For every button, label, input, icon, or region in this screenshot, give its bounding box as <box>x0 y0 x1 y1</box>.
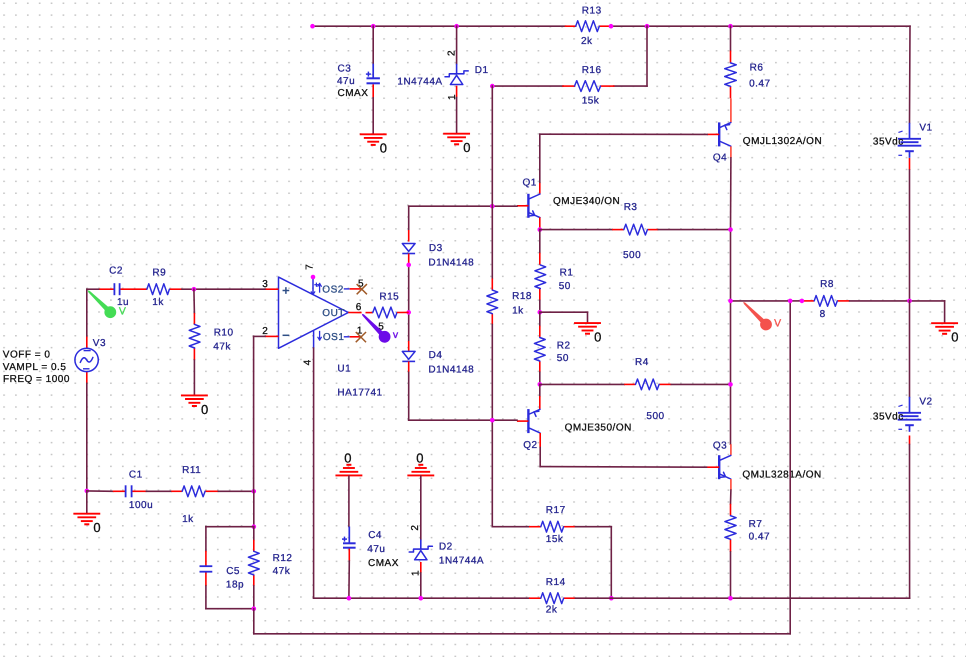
pin 1 OS1 stub <box>344 326 363 337</box>
junction R12/C5 top <box>252 524 257 529</box>
junction Q1 base / center column <box>490 204 495 209</box>
junction top rail / C3 <box>371 24 376 29</box>
svg-text:1k: 1k <box>512 306 524 317</box>
wire C4 branch <box>348 476 350 598</box>
svg-text:1k: 1k <box>152 297 164 308</box>
svg-text:QMJE350/ON: QMJE350/ON <box>565 423 632 434</box>
junction R2 / Q2 emitter / R4 <box>538 382 543 387</box>
svg-text:D4: D4 <box>429 350 443 361</box>
svg-text:2: 2 <box>446 50 457 56</box>
junction input row / R10 <box>192 287 197 292</box>
op-amp OS2 label <box>318 284 344 296</box>
svg-text:OUT: OUT <box>322 308 345 319</box>
wire V1 column <box>909 26 912 301</box>
ground 0 at R1/R2 node <box>575 323 602 344</box>
no-connect X pin5 <box>357 285 366 294</box>
svg-text:R8: R8 <box>820 279 834 290</box>
svg-text:35Vdc: 35Vdc <box>873 137 904 148</box>
svg-text:47k: 47k <box>213 342 231 353</box>
svg-text:1N4744A: 1N4744A <box>439 555 484 566</box>
wire Q1 collector row <box>540 134 707 194</box>
svg-text:v: v <box>393 329 399 341</box>
junction R8 left <box>800 299 805 304</box>
junction R7 / R14 row <box>728 596 733 601</box>
svg-text:0.47: 0.47 <box>749 531 770 542</box>
svg-text:R3: R3 <box>624 202 638 213</box>
junction output node <box>728 299 733 304</box>
svg-text:QMJL3281A/ON: QMJL3281A/ON <box>742 470 821 481</box>
capacitor C5 <box>200 566 245 591</box>
wire Q2 collector to Q3 base <box>540 433 706 467</box>
junction R3 / output column <box>728 227 733 232</box>
junction D3 cathode <box>406 263 411 268</box>
ground 0 under D1 <box>444 134 471 155</box>
resistor R14 <box>541 577 566 616</box>
svg-text:D1N4148: D1N4148 <box>428 257 474 268</box>
op-amp U1 HA17741 <box>279 277 383 398</box>
svg-text:47u: 47u <box>337 76 355 87</box>
junction feedback node <box>252 489 257 494</box>
op-amp plus input mark <box>283 288 288 293</box>
resistor R10 <box>189 324 233 352</box>
svg-text:OS1: OS1 <box>323 332 345 343</box>
svg-text:0: 0 <box>594 330 602 345</box>
svg-text:0: 0 <box>463 140 471 155</box>
resistor R7 <box>725 516 770 543</box>
svg-text:8: 8 <box>820 309 826 320</box>
svg-text:C2: C2 <box>109 265 123 276</box>
dc source V1 35Vdc <box>873 123 933 158</box>
svg-text:7: 7 <box>305 264 316 270</box>
junction R1/R2/ground <box>538 310 543 315</box>
svg-text:R16: R16 <box>582 65 602 76</box>
svg-text:V3: V3 <box>93 338 106 349</box>
svg-text:QMJL1302A/ON: QMJL1302A/ON <box>743 136 822 147</box>
junction top rail / D1 <box>454 24 459 29</box>
svg-text:2k: 2k <box>581 36 593 47</box>
pin 3 stub <box>262 279 278 290</box>
no-connect X pin1 <box>356 333 365 342</box>
wire R15 to diode column <box>397 311 409 313</box>
svg-text:50: 50 <box>557 353 569 364</box>
resistor R16 <box>575 65 602 107</box>
svg-text:15k: 15k <box>546 534 564 545</box>
capacitor C3 <box>337 64 380 100</box>
junction R16 / center column <box>490 84 495 89</box>
svg-text:0: 0 <box>416 451 424 466</box>
pin 4 lead <box>303 331 314 366</box>
svg-text:R11: R11 <box>182 465 201 476</box>
svg-text:Q3: Q3 <box>713 441 727 452</box>
junction R15 / diode column <box>406 310 411 315</box>
resistor R13 <box>576 6 602 48</box>
svg-text:R6: R6 <box>750 63 764 74</box>
junction Q1 emitter node <box>538 227 543 232</box>
svg-text:1k: 1k <box>182 514 194 525</box>
svg-text:1: 1 <box>411 570 422 576</box>
svg-text:C1: C1 <box>129 470 143 481</box>
wire D2 branch <box>420 476 422 598</box>
resistor R4 <box>635 357 665 422</box>
resistor R3 <box>623 202 647 261</box>
wire R12 C5 branch <box>253 491 255 526</box>
svg-text:R10: R10 <box>214 328 234 339</box>
svg-text:1: 1 <box>447 94 458 100</box>
svg-text:QMJE340/ON: QMJE340/ON <box>553 196 620 207</box>
svg-text:2: 2 <box>262 326 268 337</box>
wire C3 branch <box>372 26 374 133</box>
junction R17 / R14 row <box>609 596 614 601</box>
junction C5/R12 bottom <box>252 606 257 611</box>
resistor R15 <box>373 292 399 333</box>
pin 2 stub <box>262 326 278 337</box>
svg-text:C4: C4 <box>368 530 382 541</box>
wire Q3 emitter to R7 <box>730 479 732 598</box>
svg-text:4: 4 <box>303 359 314 365</box>
svg-text:Q1: Q1 <box>523 178 537 189</box>
transistor Q2 QMJE350 <box>517 409 632 451</box>
svg-text:R17: R17 <box>546 505 566 516</box>
svg-text:0: 0 <box>951 330 959 345</box>
svg-text:VAMPL = 0.5: VAMPL = 0.5 <box>3 362 67 373</box>
svg-text:0.47: 0.47 <box>749 79 770 90</box>
wire R2 branch <box>539 312 541 384</box>
svg-text:R18: R18 <box>512 291 532 302</box>
transistor Q1 QMJE340 <box>517 178 620 218</box>
wire bottom feedback rail <box>254 301 790 634</box>
svg-text:R13: R13 <box>582 6 602 17</box>
junction top rail / pin7 column <box>310 24 315 29</box>
svg-text:500: 500 <box>646 411 664 422</box>
probe V at output <box>743 302 781 331</box>
svg-text:R14: R14 <box>546 577 566 588</box>
svg-text:Q4: Q4 <box>713 153 727 164</box>
wire negative rail row <box>349 597 910 599</box>
pin 5 OS2 stub <box>344 279 364 290</box>
wire center column <box>491 86 493 527</box>
resistor R17 <box>541 505 566 545</box>
junction R8 / V rail <box>907 299 912 304</box>
wire V3 to ground <box>86 491 88 513</box>
svg-text:VOFF = 0: VOFF = 0 <box>3 350 51 361</box>
wire feedback to pin 2 <box>254 336 265 491</box>
junction C4 / negative rail <box>347 596 352 601</box>
svg-text:100u: 100u <box>129 500 153 511</box>
wire D4 to Q2 base row <box>409 361 517 420</box>
svg-text:1N4744A: 1N4744A <box>397 76 442 87</box>
svg-text:HA17741: HA17741 <box>337 388 382 399</box>
wire R16 branch <box>492 26 647 86</box>
resistor R1 <box>535 265 573 292</box>
ground 0 under R10 <box>182 395 209 416</box>
diode D3 D1N4148 <box>402 243 474 268</box>
junction R4 / output column <box>728 382 733 387</box>
resistor R12 <box>248 551 292 577</box>
svg-text:R9: R9 <box>152 267 166 278</box>
ground 0 under C3 <box>361 134 388 155</box>
wire V3 column <box>86 289 88 491</box>
wire Q2 emitter <box>539 384 541 409</box>
capacitor C2 <box>109 265 129 308</box>
svg-text:Q2: Q2 <box>523 440 537 451</box>
resistor R8 <box>814 279 837 320</box>
svg-text:R7: R7 <box>749 519 763 530</box>
svg-text:R1: R1 <box>560 267 574 278</box>
ground 0 above D2 <box>408 451 433 476</box>
zener diode D1 <box>397 50 488 100</box>
svg-text:2k: 2k <box>546 605 558 616</box>
wire Q1 base row <box>409 205 517 207</box>
svg-text:R4: R4 <box>635 357 649 368</box>
pin 7 lead <box>305 264 318 295</box>
wire R3 row <box>540 229 731 231</box>
sine source V3 <box>3 338 106 385</box>
resistor R2 <box>534 338 570 365</box>
svg-text:C3: C3 <box>338 64 352 75</box>
junction output / feedback column <box>788 299 793 304</box>
wire D1 branch <box>456 26 458 133</box>
wire Q1 emitter <box>539 217 541 229</box>
wire R10 branch <box>193 289 196 394</box>
pin 6 OUT stub <box>348 302 373 313</box>
capacitor C1 <box>126 470 154 512</box>
ground 0 above C4 <box>336 451 361 476</box>
svg-text:500: 500 <box>623 250 641 261</box>
junction Q2 base row / center column <box>490 418 495 423</box>
wire R17 row <box>492 527 611 599</box>
svg-text:OS2: OS2 <box>322 284 344 295</box>
transistor Q4 QMJL1302A <box>707 122 822 163</box>
svg-text:18p: 18p <box>226 580 244 591</box>
wire R1 branch <box>539 230 541 313</box>
svg-text:0: 0 <box>201 402 209 417</box>
op-amp minus input mark <box>283 334 288 336</box>
wire R4 row <box>540 383 731 385</box>
junction D2 / negative rail <box>419 596 424 601</box>
svg-text:U1: U1 <box>337 364 351 375</box>
wire C1 R11 row <box>87 490 254 492</box>
wire output column mid <box>730 301 732 455</box>
probe V at op-amp output <box>362 314 399 343</box>
svg-text:FREQ = 1000: FREQ = 1000 <box>3 374 70 385</box>
svg-text:D1: D1 <box>475 65 489 76</box>
resistor R11 <box>182 465 205 525</box>
svg-text:R2: R2 <box>557 341 571 352</box>
op-amp OS1 label <box>318 332 345 344</box>
svg-text:0: 0 <box>380 141 388 156</box>
wire Q4 collector to output node <box>730 146 732 301</box>
wire D3 column top <box>408 206 410 241</box>
wire input row <box>87 288 265 290</box>
junction top rail / R6 <box>728 24 733 29</box>
resistor R18 <box>487 290 532 317</box>
diode D4 D1N4148 <box>402 350 474 376</box>
wire to ground at R1/R2 <box>540 312 588 322</box>
probe V at input <box>88 290 127 318</box>
svg-text:D3: D3 <box>429 243 443 254</box>
wire C5 loop <box>206 527 254 609</box>
svg-text:CMAX: CMAX <box>368 558 399 569</box>
svg-text:D2: D2 <box>439 541 453 552</box>
svg-text:6: 6 <box>356 302 362 313</box>
svg-text:47k: 47k <box>273 566 291 577</box>
capacitor C4 <box>342 530 399 569</box>
wire V2 column <box>909 301 911 598</box>
wire +35V top rail <box>313 25 911 27</box>
svg-text:D1N4148: D1N4148 <box>428 364 474 375</box>
wire pin4 column <box>314 348 349 598</box>
svg-text:V: V <box>119 306 127 318</box>
svg-text:V1: V1 <box>919 123 932 134</box>
svg-text:47u: 47u <box>367 544 385 555</box>
ground 0 under V3 <box>74 514 101 535</box>
dc source V2 35Vdc <box>873 397 933 432</box>
svg-text:C5: C5 <box>226 566 240 577</box>
wire output row <box>731 301 945 323</box>
junction V3 / C1 row / ground <box>85 489 90 494</box>
wire R6 column <box>730 26 732 122</box>
wire D3 to D4 <box>408 254 410 352</box>
svg-text:2: 2 <box>410 525 421 531</box>
svg-text:50: 50 <box>559 281 571 292</box>
zener diode D2 <box>409 525 484 576</box>
transistor Q3 QMJL3281A <box>707 441 822 481</box>
junction top rail / R16 column <box>645 24 650 29</box>
ground 0 at output right <box>932 323 959 344</box>
svg-text:35Vdc: 35Vdc <box>873 412 904 423</box>
svg-text:0: 0 <box>93 520 101 535</box>
op-amp OUT label <box>322 308 345 319</box>
svg-text:R12: R12 <box>273 553 293 564</box>
svg-text:0: 0 <box>344 451 352 466</box>
junction top rail / R13 <box>609 24 614 29</box>
svg-text:CMAX: CMAX <box>338 88 369 99</box>
wire R12 <box>253 527 255 609</box>
svg-text:R15: R15 <box>379 292 399 303</box>
svg-text:V: V <box>774 317 782 329</box>
resistor R6 <box>725 63 771 90</box>
svg-text:15k: 15k <box>582 96 600 107</box>
resistor R9 <box>147 267 170 308</box>
junction pin7 <box>311 275 316 280</box>
svg-text:V2: V2 <box>919 397 932 408</box>
svg-text:3: 3 <box>262 279 268 290</box>
